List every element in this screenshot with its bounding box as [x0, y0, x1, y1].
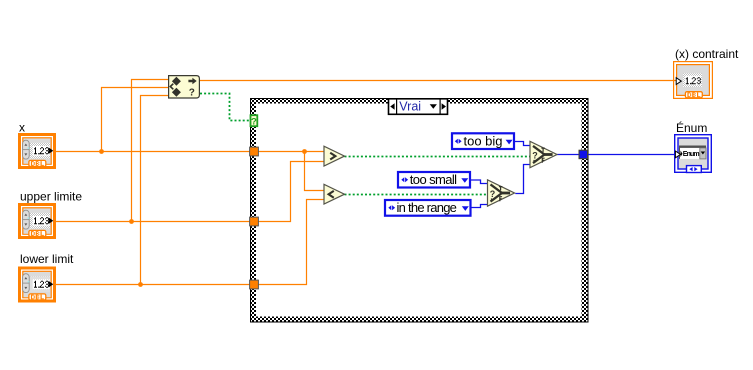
svg-text:Vrai: Vrai — [399, 100, 421, 114]
wire select 1 output to Enum indicator — [557, 154, 676, 156]
wire enum too small to select 2 true input — [471, 180, 488, 184]
svg-text:in the range: in the range — [397, 200, 457, 215]
svg-text:Énum: Énum — [676, 120, 707, 135]
svg-text:lower limit: lower limit — [20, 252, 74, 266]
wire branch upper limite up to In Range top input — [132, 80, 169, 222]
junction lower limit — [138, 282, 143, 287]
case selector terminal ? — [251, 115, 258, 127]
svg-text:(x) contraint: (x) contraint — [675, 47, 739, 61]
control lower limit — [18, 267, 56, 303]
wire x control to greater node — [56, 151, 324, 153]
wire enum too big to select 1 true input — [515, 142, 530, 146]
wire select 2 output to select 1 false input — [515, 165, 530, 194]
tunnel upper limite — [250, 217, 259, 226]
svg-text:upper limite: upper limite — [20, 190, 82, 204]
label Enum — [676, 120, 707, 135]
tunnel lower limit — [250, 280, 259, 289]
indicator Enum — [675, 135, 712, 173]
label lower limit — [20, 252, 74, 266]
wire branch x down to less node top input — [305, 152, 325, 191]
wire boolean In Range ? to case selector terminal — [200, 94, 250, 121]
control x — [18, 133, 56, 169]
svg-text:?: ? — [251, 116, 257, 127]
greater node — [324, 146, 345, 166]
wire branch x up to In Range middle input — [102, 88, 169, 152]
svg-text:x: x — [19, 121, 25, 135]
junction x branch — [99, 149, 104, 154]
svg-text:too small: too small — [410, 172, 457, 187]
wire enum in the range to select 2 false input — [471, 205, 488, 208]
junction x inside case — [302, 149, 307, 154]
svg-text:?: ? — [189, 88, 195, 99]
indicator (x) contraint — [674, 62, 713, 99]
select node 2 — [488, 180, 515, 206]
wire boolean greater output to select 1 — [345, 156, 531, 158]
wire branch lower limit up to In Range bottom input — [141, 96, 169, 285]
svg-text:too big: too big — [464, 133, 503, 148]
select node 1 — [530, 141, 557, 167]
wire In Range coerced output to (x) contraint indicator — [200, 80, 676, 82]
label upper limite — [20, 190, 82, 204]
In Range and Coerce node — [169, 76, 200, 99]
label x — [19, 121, 25, 135]
junction upper limite — [129, 219, 134, 224]
case selector label Vrai — [389, 99, 448, 115]
wire boolean less output to select 2 — [345, 194, 488, 196]
enum constant too big — [452, 133, 514, 149]
tunnel x — [250, 147, 259, 156]
wire lower limit to less node bottom input — [56, 200, 324, 285]
less node — [324, 184, 345, 204]
tunnel enum output — [579, 150, 588, 159]
svg-text:Enum: Enum — [683, 151, 700, 158]
wire upper limite to greater node bottom input — [56, 162, 324, 222]
label (x) contraint — [675, 47, 739, 61]
enum constant too small — [398, 172, 470, 188]
control upper limite — [18, 203, 56, 239]
enum constant in the range — [385, 200, 471, 216]
case structure — [250, 98, 589, 323]
